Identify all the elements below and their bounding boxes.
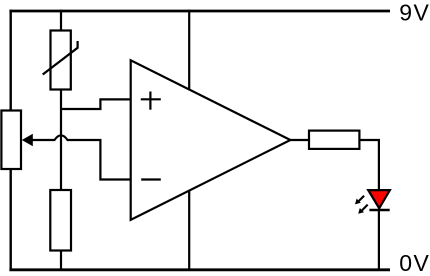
resistor R1 body [50,190,71,251]
LED light emission arrow 2 [358,205,368,214]
wire: wiper to inverting input (with hop over divider wire) [33,135,131,179]
wire: LED cathode to 0V rail [378,210,380,270]
potentiometer wiper arrow [22,134,33,147]
thermistor TH1 diagonal stroke [43,41,78,75]
wire: op-amp positive supply from 9V rail [188,10,190,140]
resistor R2 body [309,131,359,149]
wire: divider midpoint to non-inverting input [61,99,131,109]
wire: op-amp output to resistor R2 [290,139,309,141]
0V supply rail [9,268,390,271]
svg-text:9V: 9V [399,0,430,26]
wire: 9V rail to thermistor top [60,10,62,31]
op-amp U1 triangle [131,60,291,220]
LED D1 cathode bar [369,209,389,211]
wire: potentiometer bottom to 0V rail [9,169,11,270]
potentiometer VR1 body [1,111,21,170]
op-amp inverting (-) input symbol [141,178,161,180]
wire: thermistor bottom to resistor R1 top (divider midpoint) [60,90,62,191]
wire: left branch, 9V rail to potentiometer top [9,10,11,111]
svg-text:0V: 0V [399,250,430,276]
LED D1 triangle [368,190,390,208]
9V supply rail [9,10,390,13]
thermistor TH1 body [51,31,71,90]
wire: resistor R1 bottom to 0V rail [60,251,62,271]
op-amp non-inverting (+) input symbol [141,92,161,110]
wire: op-amp negative supply to 0V rail [188,140,190,270]
LED light emission arrow 1 [355,196,364,205]
wire: resistor R2 to LED anode [359,140,379,190]
